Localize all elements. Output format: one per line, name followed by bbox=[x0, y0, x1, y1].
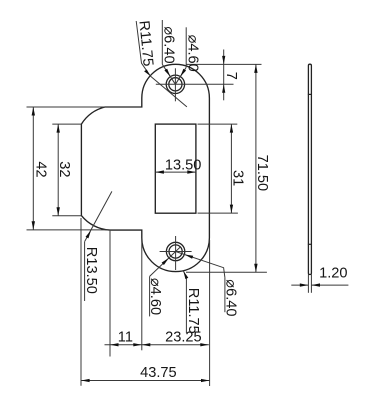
screw hole bottom inner bbox=[169, 245, 182, 258]
arrow 71.50 bottom bbox=[254, 264, 257, 273]
svg-text:11: 11 bbox=[118, 329, 133, 345]
leader diag R11.75 bottom bbox=[183, 271, 186, 278]
arrow 43.75 right bbox=[201, 379, 210, 382]
arrow 32 top bbox=[57, 124, 60, 133]
leader R11.75 top bbox=[136, 21, 150, 76]
screw hole bottom outer bbox=[166, 242, 184, 260]
centerline top hole vertical bbox=[174, 68, 176, 101]
arrow 13.50 right bbox=[187, 170, 196, 173]
arrow 71.50 top bbox=[254, 64, 257, 73]
leader underline R11.75 bottom bbox=[185, 278, 187, 334]
side view tick top bbox=[308, 93, 312, 95]
leader diag diam 6.40 top bbox=[162, 64, 175, 84]
extension line 43.75 left bbox=[80, 218, 82, 386]
extension line 32 bottom bbox=[52, 215, 81, 217]
dim line 71.50 bbox=[255, 64, 257, 272]
extension line rect bottom right bbox=[198, 212, 238, 214]
arrow 31 bottom bbox=[230, 205, 233, 214]
svg-text:7: 7 bbox=[223, 72, 239, 80]
svg-text:32: 32 bbox=[56, 161, 72, 177]
arrow diam 6.40 bottom leader bbox=[185, 255, 194, 259]
svg-text:13.50: 13.50 bbox=[165, 157, 202, 173]
svg-text:1.20: 1.20 bbox=[319, 265, 347, 281]
arrow 11 left bbox=[110, 343, 119, 346]
arrow diam 6.40 top leader bbox=[164, 69, 170, 77]
extension line rect top right bbox=[198, 123, 238, 125]
side view extension right bbox=[310, 275, 312, 293]
extension line 11 left bbox=[109, 231, 111, 357]
leader R13.50 line bbox=[85, 191, 112, 241]
dim line 43.75 bbox=[81, 380, 209, 382]
extension line wing top bbox=[27, 106, 105, 108]
centerline top hole horizontal bbox=[156, 83, 234, 85]
centerline bottom hole vertical bbox=[175, 236, 177, 270]
extension line wing bottom bbox=[27, 229, 109, 231]
svg-text:71.50: 71.50 bbox=[254, 155, 270, 192]
leader underline diam 4.60 top bbox=[185, 27, 187, 67]
arrow 1.20 right outside bbox=[312, 283, 321, 286]
leader underline diam 6.40 bottom bbox=[224, 278, 226, 313]
arrow R11.75 bottom leader bbox=[183, 271, 188, 279]
extension line 32 top bbox=[52, 123, 81, 125]
dim line 11 and 23.25 bbox=[105, 344, 209, 346]
svg-text:42: 42 bbox=[33, 161, 49, 177]
screw hole top outer bbox=[166, 75, 184, 93]
leader underline R13.50 bbox=[84, 241, 86, 301]
screw hole top inner bbox=[169, 78, 182, 91]
leader diag diam 4.60 bottom bbox=[150, 247, 181, 276]
side view extension left bbox=[307, 275, 309, 293]
extension line right column bbox=[209, 240, 211, 386]
extension line plate bottom right bbox=[186, 271, 267, 273]
dim line 1.20 left bbox=[291, 284, 308, 286]
svg-text:R11.75: R11.75 bbox=[185, 288, 201, 334]
centerline bottom hole horizontal bbox=[160, 251, 192, 253]
dim line 13.50 bbox=[155, 171, 195, 173]
arrow 23.25 left bbox=[142, 343, 151, 346]
svg-text:⌀6.40: ⌀6.40 bbox=[222, 279, 238, 316]
leader underline diam 4.60 bottom bbox=[149, 276, 151, 316]
svg-text:⌀4.60: ⌀4.60 bbox=[147, 278, 163, 315]
arrow 42 bottom bbox=[32, 221, 35, 230]
leader polyline diam 6.40 bottom bbox=[176, 252, 225, 278]
arrow diam 4.60 bottom leader bbox=[162, 258, 169, 265]
dim line 31 bbox=[230, 124, 232, 213]
latch opening rectangle bbox=[155, 124, 196, 213]
extension line plate top right bbox=[186, 63, 261, 65]
arrow 13.50 left bbox=[155, 170, 164, 173]
leader diag diam 4.60 top bbox=[175, 67, 186, 84]
dim line 42 bbox=[32, 107, 34, 230]
extension line step bbox=[141, 239, 143, 351]
svg-text:⌀6.40: ⌀6.40 bbox=[161, 26, 177, 63]
arrow 32 bottom bbox=[57, 207, 60, 216]
side view tick bottom bbox=[308, 243, 312, 245]
arrow 31 top bbox=[230, 124, 233, 133]
arrow 11 right bbox=[133, 343, 142, 346]
arrow R13.50 leader bbox=[86, 230, 92, 238]
arrow 23.25 right bbox=[200, 343, 209, 346]
svg-text:⌀4.60: ⌀4.60 bbox=[185, 35, 201, 72]
dim line 1.20 right bbox=[312, 284, 349, 286]
svg-text:31: 31 bbox=[230, 170, 246, 186]
arrow 1.20 left outside bbox=[300, 283, 309, 286]
leader underline diam 6.40 top bbox=[161, 20, 163, 64]
arrow R11.75 top leader bbox=[144, 70, 150, 77]
side view plate bbox=[308, 64, 311, 274]
arrow 43.75 left bbox=[81, 379, 90, 382]
leader R11.75 top through line bbox=[150, 76, 187, 107]
arrow diam 4.60 top leader bbox=[180, 69, 186, 77]
arrow 42 top bbox=[32, 107, 35, 116]
arrow 7 top outside bbox=[222, 56, 225, 65]
svg-text:R13.50: R13.50 bbox=[83, 247, 99, 294]
svg-text:R11.75: R11.75 bbox=[135, 20, 155, 67]
dim line 7 bbox=[223, 50, 225, 101]
plate outline bbox=[81, 64, 209, 271]
arrow 7 bottom outside bbox=[222, 84, 225, 93]
dim line 32 bbox=[57, 124, 59, 216]
svg-text:43.75: 43.75 bbox=[140, 365, 177, 381]
